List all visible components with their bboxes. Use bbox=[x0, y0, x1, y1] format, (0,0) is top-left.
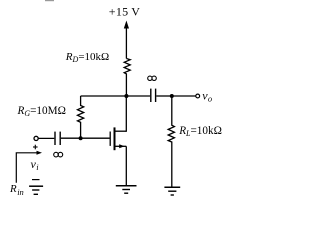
label C2 infinity bbox=[148, 76, 157, 80]
terminal vo circle bbox=[196, 94, 200, 98]
transistor Q1 drain lead bbox=[115, 130, 126, 132]
svg-text:R: R bbox=[9, 183, 17, 195]
svg-text:o: o bbox=[208, 94, 212, 104]
transistor Q1 channel bar bbox=[114, 127, 116, 150]
capacitor C1 input coupling bbox=[55, 132, 60, 145]
capacitor C2 output coupling bbox=[151, 89, 156, 102]
node gate junction bbox=[79, 136, 83, 140]
VDD arrow bbox=[124, 21, 129, 59]
transistor Q1 source lead with arrow bbox=[115, 145, 126, 147]
svg-text:in: in bbox=[17, 187, 24, 197]
transistor Q1 gate bar bbox=[109, 132, 111, 146]
resistor RG bbox=[78, 96, 84, 138]
wire to vo terminal bbox=[172, 95, 196, 97]
node output junction bbox=[170, 94, 174, 98]
stray scan mark top edge bbox=[45, 0, 54, 1]
ground input source bbox=[29, 186, 43, 194]
terminal input circle bbox=[34, 136, 38, 140]
svg-text:RG=10MΩ: RG=10MΩ bbox=[17, 105, 66, 118]
arrow Rin bbox=[16, 151, 42, 183]
resistor RL bbox=[168, 96, 174, 187]
svg-text:+15 V: +15 V bbox=[109, 4, 141, 18]
ground RL bbox=[164, 187, 180, 195]
ground source bbox=[116, 186, 137, 194]
svg-text:RD=10kΩ: RD=10kΩ bbox=[65, 51, 109, 64]
wire drain vertical bbox=[125, 96, 127, 132]
wire output node to capacitor bbox=[126, 95, 150, 97]
wire input terminal to capacitor bbox=[38, 137, 54, 139]
wire source vertical bbox=[125, 146, 127, 185]
svg-text:RL=10kΩ: RL=10kΩ bbox=[178, 125, 222, 138]
resistor RD bbox=[124, 59, 130, 97]
plus sign input bbox=[33, 145, 38, 150]
node drain junction bbox=[124, 94, 128, 98]
wire capacitor to gate bbox=[61, 137, 110, 139]
label C1 infinity bbox=[54, 152, 63, 157]
minus sign input bbox=[32, 179, 40, 181]
wire drain node to RG top bbox=[81, 95, 127, 97]
wire capacitor to output junction bbox=[156, 95, 172, 97]
